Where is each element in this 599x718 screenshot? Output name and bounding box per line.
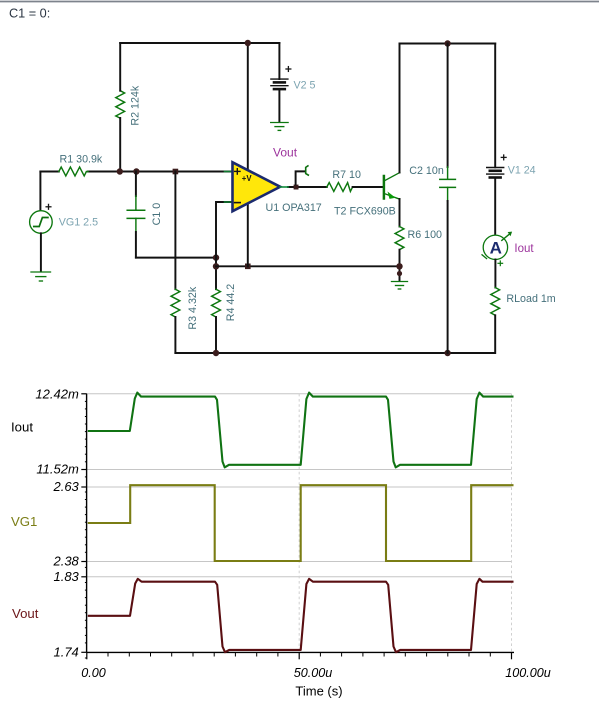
battery V2: [271, 43, 291, 122]
svg-text:1.74: 1.74: [53, 645, 78, 660]
svg-text:C2 10n: C2 10n: [409, 165, 444, 177]
svg-text:R2 124k: R2 124k: [130, 85, 142, 125]
wire bottom rail: [175, 352, 495, 354]
y labels: [35, 386, 79, 659]
svg-text:100.00u: 100.00u: [505, 666, 551, 680]
op-amp U1: [233, 162, 281, 211]
wire R2 top: [119, 43, 121, 91]
x axis: [87, 651, 514, 653]
svg-text:2.38: 2.38: [52, 554, 79, 569]
node junction top rail: [245, 40, 251, 46]
wire R4 bottom: [215, 317, 217, 353]
node junction R4/rail: [213, 350, 219, 356]
ground below R6: [392, 282, 408, 290]
wire top-right rail: [400, 43, 496, 45]
wire -V drop from op-amp: [247, 200, 249, 266]
node junction -V on wireB: [245, 264, 251, 270]
op-amp input pin stubs: [225, 171, 233, 173]
node junction R3/nodeX: [173, 169, 179, 175]
wire R7 to base: [353, 186, 383, 188]
svg-text:R7 10: R7 10: [332, 169, 361, 181]
top window border: [0, 1, 599, 3]
svg-text:R4 44.2: R4 44.2: [225, 284, 237, 321]
capacitor C1: [127, 172, 145, 258]
svg-text:11.52m: 11.52m: [36, 462, 79, 477]
y axis ticks: [81, 394, 87, 653]
svg-text:V1 24: V1 24: [508, 165, 536, 177]
svg-text:RLoad 1m: RLoad 1m: [506, 293, 555, 305]
trace Iout (green): [88, 393, 514, 468]
svg-text:R1 30.9k: R1 30.9k: [60, 153, 103, 165]
resistor R1: [59, 167, 88, 176]
resistor R6: [395, 227, 404, 250]
ground below VG1: [31, 272, 51, 281]
node junction C1/nodeX: [133, 168, 139, 174]
node junction output: [294, 185, 299, 190]
node junction wireA: [213, 254, 219, 260]
svg-text:0.00: 0.00: [81, 666, 106, 680]
svg-text:VG1 2.5: VG1 2.5: [59, 216, 98, 228]
svg-text:A: A: [490, 239, 502, 258]
resistor R3: [171, 172, 180, 354]
resistor RLoad: [491, 260, 500, 354]
svg-text:+V: +V: [242, 174, 253, 183]
wire B (ground rail mid): [216, 265, 400, 267]
svg-text:Vout: Vout: [12, 606, 39, 621]
svg-text:50.00u: 50.00u: [294, 666, 333, 680]
svg-text:R3 4.32k: R3 4.32k: [187, 286, 199, 329]
op-amp output pin stub: [280, 186, 288, 188]
node junction ground pin: [397, 271, 402, 276]
node junction wireB-left: [213, 263, 219, 269]
resistor R4: [212, 289, 221, 317]
y axis minor ticks: [85, 401, 87, 658]
wire top-left rail: [120, 42, 279, 44]
x axis minor ticks: [108, 652, 490, 656]
svg-text:Time (s): Time (s): [295, 684, 342, 699]
battery V1: [487, 44, 506, 236]
ground below V2: [271, 123, 288, 131]
svg-text:2.63: 2.63: [52, 479, 79, 494]
node junction wireB/R6: [396, 263, 402, 269]
gridline dashed 100u: [511, 394, 513, 653]
svg-text:C1 = 0:: C1 = 0:: [9, 7, 50, 21]
capacitor C2: [440, 44, 456, 354]
wire A (C1 bottom to inverting node): [136, 257, 216, 259]
source VG1: [30, 172, 53, 272]
svg-text:T2 FCX690B: T2 FCX690B: [334, 205, 396, 217]
y axis: [86, 394, 88, 653]
wire node-X horizontal (R1 output row): [40, 171, 58, 173]
node junction R2/nodeX: [117, 168, 123, 174]
node junction C2/rail: [444, 350, 450, 356]
svg-text:V2 5: V2 5: [294, 79, 316, 91]
resistor R2: [116, 91, 125, 119]
wire R6 bottom: [399, 250, 401, 281]
svg-text:Vout: Vout: [273, 145, 298, 159]
svg-text:VG1: VG1: [11, 514, 37, 529]
wire R2 bottom: [119, 118, 121, 172]
svg-text:Iout: Iout: [11, 420, 33, 435]
gridline dashed 50u: [298, 394, 300, 653]
svg-text:U1 OPA317: U1 OPA317: [266, 202, 322, 214]
svg-text:R6 100: R6 100: [408, 229, 443, 241]
svg-text:1.83: 1.83: [53, 569, 79, 584]
trace Vout (maroon): [88, 579, 514, 652]
x axis ticks: [87, 652, 512, 659]
svg-text:Iout: Iout: [514, 243, 534, 255]
wire op-amp output row: [288, 186, 327, 188]
x labels: [81, 666, 551, 680]
resistor R7: [327, 183, 353, 192]
wire inverting input branch: [216, 202, 233, 289]
gridlines horizontal: [87, 394, 512, 577]
svg-text:12.42m: 12.42m: [35, 386, 79, 401]
trace VG1 (olive): [88, 485, 514, 561]
svg-text:C1 0: C1 0: [151, 203, 163, 226]
node junction C2/top rail: [444, 40, 450, 46]
ammeter Iout: [482, 232, 512, 266]
wire +V drop to op-amp: [247, 43, 249, 174]
Vout probe: [296, 166, 309, 185]
transistor T2: [384, 44, 400, 227]
